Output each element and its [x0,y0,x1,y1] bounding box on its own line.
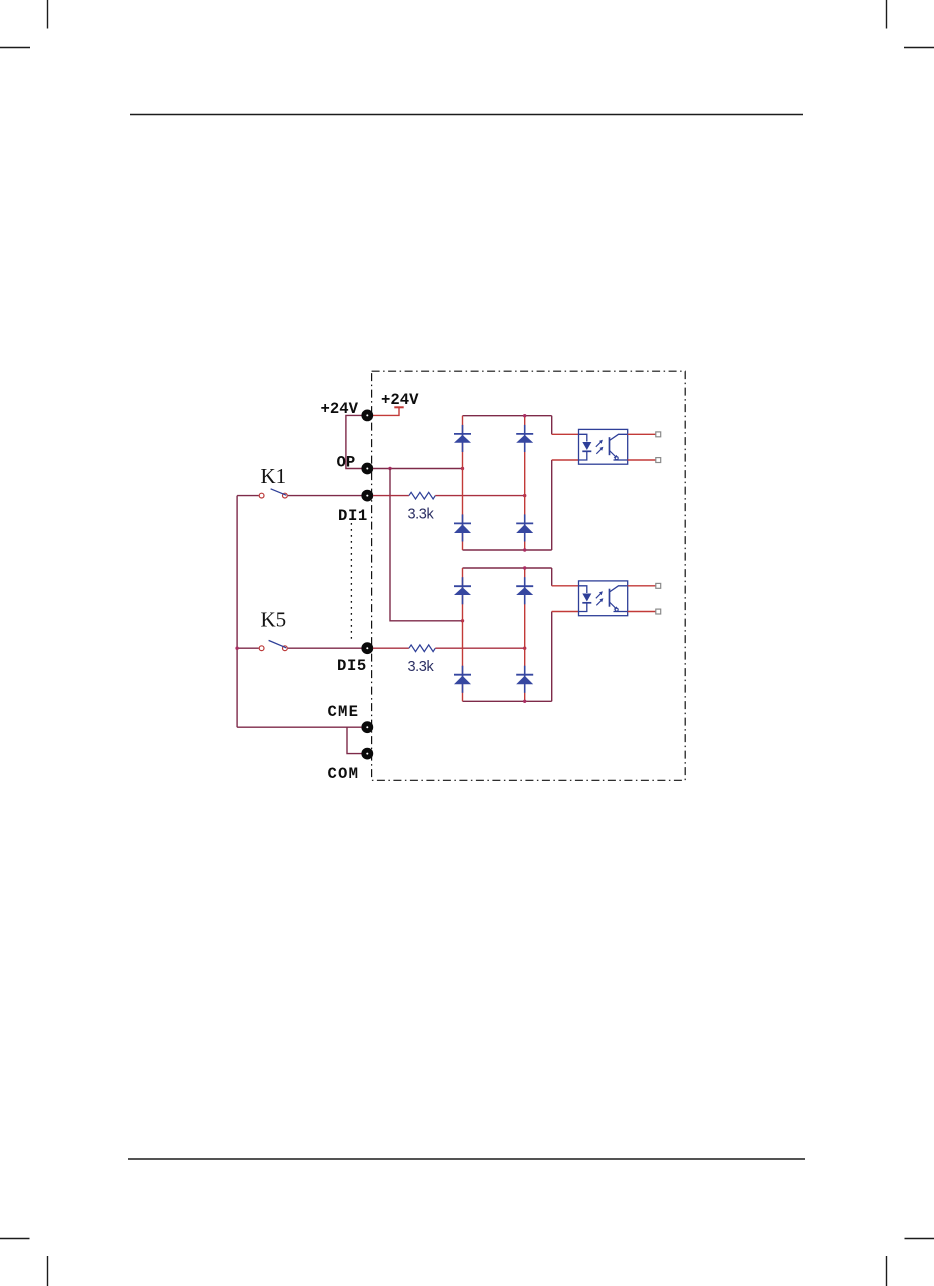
bridge 2 top rail [463,567,552,569]
bridge 1 top rail [463,415,552,417]
switch K5 [259,640,287,650]
terminal DI5 [361,642,373,654]
terminal CME [361,721,373,733]
wire: DI5 to resistor R5 [373,647,409,649]
diode D6 (top middle) [516,577,533,604]
bridge 2 right column lower [551,612,553,702]
wire: U1 collector to pad [628,433,656,435]
resistor R5 3.3k [409,645,435,652]
diode D8 (bottom middle) [516,666,533,693]
wire: U1 emitter to pad [628,459,656,461]
pad: U2 emitter output [656,609,661,614]
svg-text:K5: K5 [261,608,287,632]
wire: U2 emitter to pad [628,611,656,613]
wire: left common rail [236,496,238,728]
svg-text:DI1: DI1 [338,507,368,525]
diode D7 (bottom left) [454,666,471,693]
bridge 2 left column [462,568,464,701]
junction bridge2 bottom [523,700,526,703]
svg-text:CME: CME [328,703,360,721]
dash-dot enclosure (control board boundary) [372,371,686,780]
wire: resistor R1 to bridge 1 middle column [435,495,524,497]
svg-text:K1: K1 [261,464,287,488]
junction bridge2 top [523,566,526,569]
pad: U1 emitter output [656,458,661,463]
wire: U2 collector to pad [628,585,656,587]
wire: OP branch down to bridge 2 left column [390,469,463,621]
power bar +24V [394,406,403,408]
svg-text:COM: COM [328,765,360,783]
wire: K1 to left rail [237,495,259,497]
pad: U2 collector output [656,583,661,588]
terminal OP [361,463,373,475]
bridge 2 right column upper [551,568,553,586]
bridge 1 right column upper [551,416,553,435]
junction bridge1 top [523,414,526,417]
junction bridge1 left column at OP [461,467,464,470]
wire: CME link to COM [347,727,362,753]
wire: OP to bridge 1 left column [373,468,463,470]
junction bridge2 left column at OP branch [461,619,464,622]
bridge 2 bottom rail [463,700,552,702]
bridge 1 left column [462,416,464,550]
wire: bridge 2 to optocoupler U2 cathode [552,611,579,613]
bridge 1 bottom rail [463,549,552,551]
wire: bridge 1 to optocoupler U1 anode [552,433,579,435]
optocoupler U1 [579,429,628,464]
wire: CME to left rail [237,726,362,728]
diode D4 (bottom middle) [516,514,533,541]
svg-text:OP: OP [337,453,356,471]
junction on left rail at K5 [235,647,238,650]
svg-text:3.3k: 3.3k [408,507,435,523]
wire: K5 to DI5 terminal [288,647,362,649]
pad: U1 collector output [656,432,661,437]
wire: bridge 1 to optocoupler U1 cathode [552,459,579,461]
junction DI1 at bridge middle [523,494,526,497]
diode D2 (top middle) [516,425,533,452]
diode D5 (top left) [454,577,471,604]
wire: resistor R5 to bridge 2 middle column [435,647,524,649]
wire: bridge 2 to optocoupler U2 anode [552,585,579,587]
bridge 2 middle column [524,568,526,701]
svg-text:+24V: +24V [381,391,419,409]
terminal DI1 [361,490,373,502]
junction OP branch [388,467,391,470]
svg-text:+24V: +24V [321,400,359,418]
resistor R1 3.3k [409,492,435,499]
wire: +24V terminal to internal +24V source [373,408,399,416]
wire: +24V terminal down to OP terminal [346,415,362,468]
junction DI5 at bridge middle [523,647,526,650]
terminal +24V [361,410,373,422]
diode D1 (top left) [454,425,471,452]
bridge 1 right column lower [551,460,553,550]
bridge 1 middle column [524,416,526,550]
dotted ellipsis line DI2..DI4 [350,523,352,639]
terminal COM [361,748,373,760]
svg-text:DI5: DI5 [337,657,367,675]
optocoupler U2 [579,581,628,616]
switch K1 [259,489,287,498]
svg-text:3.3k: 3.3k [408,659,435,675]
wire: DI1 to resistor R1 [373,495,409,497]
junction bridge1 bottom [523,548,526,551]
wire: K5 to left rail [237,647,259,649]
diode D3 (bottom left) [454,514,471,541]
wire: K1 to DI1 terminal [288,495,362,497]
